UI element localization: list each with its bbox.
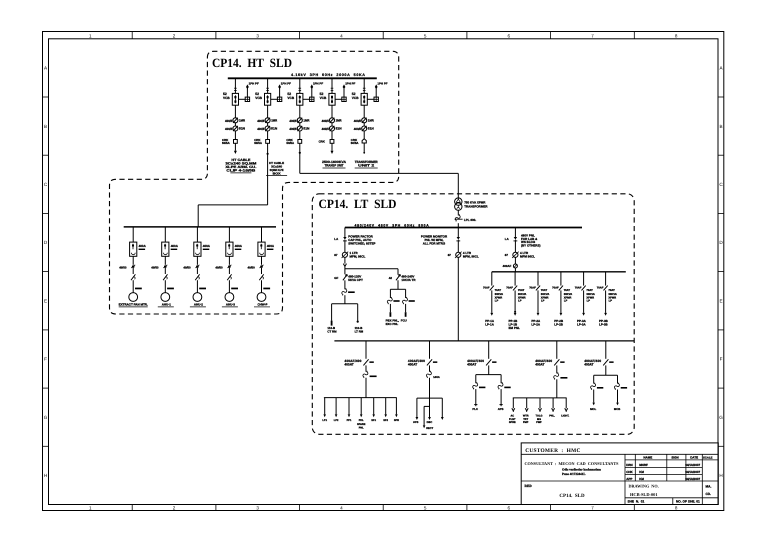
label HT feeder 1 destination text [225, 158, 256, 173]
svg-text:04/10/2007: 04/10/2007 [685, 470, 700, 474]
sheet outer border frame [43, 32, 724, 511]
LT sub distribution bus bar [492, 271, 626, 273]
svg-text:49/50: 49/50 [215, 265, 223, 269]
svg-text:LP2: LP2 [334, 419, 339, 422]
label lower feeder 4 branch 4 [549, 415, 555, 418]
label CT3B ratio [289, 127, 310, 131]
label HT feeder 1 fuse [222, 138, 231, 145]
svg-text:1PH PF: 1PH PF [377, 82, 387, 86]
svg-text:SPRE: SPRE [509, 421, 516, 424]
wire lower feeder 1 branch 4 [360, 398, 362, 415]
wire HT feeder 3 bus drop [299, 78, 301, 93]
label panel sub feeder 1 [485, 319, 495, 327]
svg-text:87: 87 [334, 253, 338, 257]
current transformer CT2A [265, 118, 270, 123]
label panel sub feeder 5 [577, 319, 587, 327]
svg-text:400AT: 400AT [408, 363, 417, 367]
terminal dot 110V right drop [357, 321, 359, 323]
svg-text:DBC: DBC [427, 421, 433, 424]
svg-text:MFM, 96CL: MFM, 96CL [350, 255, 366, 259]
svg-text:CONSULTANT : MECON CAD CON: CONSULTANT : MECON CAD CONSULTANTS [525, 461, 620, 466]
label lower feeder 4 branch 5 [561, 415, 569, 418]
label 52 VCB HT feeder 4 [320, 92, 327, 100]
wire lower feeder 5 branch 1 tail [593, 390, 595, 403]
svg-text:51N: 51N [271, 127, 278, 131]
PT arrow HT feeder 4 [343, 84, 346, 89]
PT arrow HT feeder 3 [310, 84, 313, 89]
wire HT feeder 2 bus drop [267, 78, 269, 93]
chevron arrow lower feeder 4 branch 2 [525, 408, 528, 411]
svg-text:6: 6 [508, 33, 511, 38]
wire HT feeder 4 below breaker [331, 105, 333, 118]
drawout chevrons HT feeder 5 [363, 88, 366, 90]
svg-text:LP-3A: LP-3A [577, 322, 587, 326]
svg-text:TRANSF UNIT: TRANSF UNIT [325, 164, 344, 168]
svg-text:42: 42 [389, 276, 393, 280]
wire HT feeder 2 below breaker [267, 105, 269, 118]
PT arrow HT feeder 1 [246, 84, 249, 89]
svg-text:3: 3 [256, 33, 259, 38]
svg-text:DRAWING NO.: DRAWING NO. [629, 484, 659, 489]
svg-text:5: 5 [424, 33, 427, 38]
label HT feeder 2 destination text [266, 161, 287, 176]
svg-text:49/50: 49/50 [119, 265, 127, 269]
svg-text:1MR: 1MR [271, 118, 278, 122]
svg-text:400/5: 400/5 [257, 127, 264, 131]
contact slash motor feeder 1 [131, 274, 135, 280]
dashed enclosure outline HT SLD panel + motor feeder panel (compound) [110, 51, 399, 314]
wire incomer down to lower bus [457, 257, 459, 341]
fuse squiggle lower feeder 3 branch 2 [498, 382, 503, 389]
svg-text:2: 2 [173, 33, 176, 38]
wire LT sub feeder 4 drop [560, 272, 562, 286]
svg-text:400/5: 400/5 [289, 119, 296, 123]
svg-text:F: F [44, 357, 47, 362]
svg-text:400/5: 400/5 [354, 127, 361, 131]
wire motor feeder 2 to contact [164, 268, 166, 274]
svg-text:E: E [719, 299, 722, 304]
wire HT feeder 1 below breaker [234, 105, 236, 118]
svg-text:MFM, 96CL: MFM, 96CL [463, 255, 479, 259]
svg-text:LP: LP [587, 300, 591, 303]
svg-text:SCALE: SCALE [703, 456, 713, 460]
label xfmr sub feeder 2 [518, 293, 527, 303]
wire HT feeder 1 tail [234, 143, 236, 151]
wire HT feeder 5 PT stub [375, 88, 377, 98]
fuse squiggle feeder A [342, 288, 347, 295]
overload relay motor feeder 2 [163, 265, 167, 268]
motor M1 circle [129, 293, 138, 302]
label xfmr sub feeder 1 [495, 293, 504, 303]
svg-text:E: E [44, 299, 47, 304]
svg-text:LP-3B: LP-3B [599, 322, 609, 326]
svg-text:4: 4 [340, 33, 343, 38]
label AF/AT lower feeder 3 [467, 359, 484, 367]
terminal bar feeder B2 [405, 312, 407, 317]
arrow lower feeder 2 branch 3 [441, 417, 444, 420]
wire lower feeder 5 branch 1 [593, 375, 595, 383]
svg-text:140A: 140A [433, 375, 440, 379]
svg-text:PLC: PLC [472, 407, 478, 411]
svg-text:CP14. LT SLD: CP14. LT SLD [319, 197, 397, 211]
wire LT sub feeder 1 drop [491, 272, 493, 286]
arrow lower feeder 1 branch 4 [360, 414, 363, 417]
svg-text:EF1: EF1 [371, 419, 376, 422]
label CT5A ratio [354, 118, 375, 122]
label CT1B ratio [225, 127, 246, 131]
label xfmr sub feeder 3 [541, 293, 550, 303]
border column tick marks top [132, 32, 634, 39]
label approvals row CHK [626, 470, 700, 474]
contact slash motor feeder 4 [227, 274, 231, 280]
breaker slash feeder B [396, 274, 401, 280]
motor M4 circle [225, 293, 234, 302]
PT fuse HT feeder 5 (pentagon) [362, 139, 366, 143]
terminal bar feeder B1 [390, 312, 392, 317]
breaker slash sub feeder 6 [604, 286, 608, 291]
wire lower feeder 3 to split [488, 365, 490, 374]
wire HT feeder 1 to fuse [234, 131, 236, 140]
svg-text:70AF: 70AF [529, 286, 536, 289]
chevron arrow lower feeder 4 branch 5 [565, 408, 568, 411]
svg-text:51N: 51N [239, 127, 246, 131]
wire motor feeder 2 below module [164, 256, 166, 265]
svg-text:TRANSFORMER: TRANSFORMER [464, 205, 488, 209]
label motor feeder 5 rating [267, 244, 275, 250]
svg-text:DRN: DRN [626, 463, 633, 467]
label AF/AT lower feeder 5 [584, 359, 601, 367]
test block TB3 (crossed box) [310, 97, 314, 101]
svg-text:400/5: 400/5 [257, 119, 264, 123]
fuse squiggle lower feeder 2 [426, 371, 431, 378]
svg-text:MA.: MA. [706, 484, 712, 488]
label CT2A ratio [257, 118, 278, 122]
wire motor feeder 4 to contact [228, 268, 230, 274]
label pole lower feeder 4 [560, 361, 564, 363]
label 110-B CT RM [327, 326, 337, 333]
wire sub feeder 3 tail [537, 290, 539, 313]
test block TB5 (crossed box) [374, 97, 378, 101]
svg-text:400AF: 400AF [503, 264, 512, 268]
dashed enclosure outline CP14 LT SLD panel [312, 194, 634, 434]
PT arrow HT feeder 2 [278, 84, 281, 89]
svg-text:MNRF: MNRF [639, 463, 648, 467]
current transformer CT3A [297, 118, 302, 123]
wire LT sub feeder 3 drop [537, 272, 539, 286]
svg-text:10KVA TR: 10KVA TR [401, 278, 416, 282]
vertical divider bottom row [672, 498, 674, 505]
svg-text:400/5: 400/5 [322, 119, 329, 123]
svg-text:1: 1 [89, 506, 92, 511]
svg-text:VCB: VCB [352, 96, 359, 100]
wire lower feeder 3 branch 2 tail [500, 389, 502, 405]
wire lower feeder 1 branch 7 [395, 398, 397, 415]
breaker slash sub feeder 1 [490, 286, 494, 291]
svg-text:SHE N. 01: SHE N. 01 [628, 500, 645, 504]
label motor M3 name [190, 303, 206, 307]
svg-text:PP1: PP1 [347, 419, 352, 422]
label AF/AT lower feeder 2 [408, 359, 425, 367]
svg-text:4: 4 [340, 506, 343, 511]
current transformer CT1A [233, 118, 238, 123]
fuse squiggle lower feeder 5 branch 1 [591, 383, 596, 390]
breaker slash lower feeder 1 [363, 359, 368, 365]
meter 4LTR feeder C [512, 252, 519, 258]
drawout chevrons HT feeder 4 [331, 88, 334, 90]
wire feeder C below meter [514, 257, 516, 264]
label feeder C description [521, 233, 540, 247]
arrow lower feeder 2 branch 1 [416, 417, 419, 420]
svg-text:F: F [720, 357, 723, 362]
fuse squiggle lower feeder 5 branch 2 [614, 383, 619, 390]
contact slash motor feeder 3 [195, 274, 199, 280]
wire HT feeder 3 between CTs [299, 123, 301, 127]
wire 110V panel right drop [357, 304, 359, 321]
label feeder B1 [386, 318, 400, 325]
svg-text:LT RM: LT RM [355, 330, 364, 334]
wire motor feeder 1 to contact [132, 268, 134, 274]
border row letter labels left [44, 66, 48, 479]
wire motor feeder 3 to contact [196, 268, 198, 274]
svg-text:LP: LP [564, 300, 568, 303]
surge arrester LA1 feeder A [343, 237, 347, 241]
label 52 VCB HT feeder 2 [255, 92, 262, 100]
contact slash motor feeder 2 [163, 274, 167, 280]
svg-text:49/50: 49/50 [183, 265, 191, 269]
svg-text:49/50: 49/50 [248, 265, 256, 269]
wire lower feeder 2 sub branch jog [424, 406, 429, 425]
fuse squiggle feeder B1 [387, 297, 392, 304]
svg-text:UPS: UPS [413, 421, 419, 424]
svg-text:400/5: 400/5 [354, 119, 361, 123]
wire motor feeder 1 drop [132, 227, 134, 242]
breaker slash sub feeder 5 [582, 286, 586, 291]
chevron arrow lower feeder 4 branch 4 [552, 408, 555, 411]
wire LT sub feeder 2 drop [514, 272, 516, 286]
wire LT sub feeder 6 drop [605, 272, 607, 286]
svg-text:H: H [719, 473, 722, 478]
wire lower feeder 1 to fuse [365, 365, 367, 371]
current transformer CT5A [362, 118, 367, 123]
label lower feeder 2 branches [413, 421, 432, 424]
label fuse feeder B1 [393, 300, 399, 302]
arrow sub feeder 6 [604, 313, 607, 316]
label fuse feeder A [348, 291, 355, 293]
svg-text:1PH PF: 1PH PF [281, 82, 291, 86]
wire HT feeder 2 PT stub [279, 88, 281, 98]
svg-text:5: 5 [424, 506, 427, 511]
label 200A lower feeder 4 [560, 377, 567, 379]
test block TB4 (crossed box) [342, 97, 346, 101]
contact slash motor feeder 5 [259, 274, 263, 280]
current transformer CT3B [297, 126, 302, 131]
svg-text:B: B [719, 124, 722, 129]
wire feeder C to sub bus [514, 268, 516, 272]
arrow sub feeder 2 [514, 313, 517, 316]
label AF/AT lower feeder 4 [535, 359, 552, 367]
svg-text:5KVA CPT: 5KVA CPT [348, 278, 363, 282]
svg-text:70AT: 70AT [564, 289, 571, 292]
wire LT feeder B drop [397, 269, 399, 275]
label feeder B description [401, 274, 416, 282]
svg-text:4.16kV 3PH 60Hz 2000A 50KA: 4.16kV 3PH 60Hz 2000A 50KA [291, 73, 366, 77]
svg-text:EXTRACT FAN MTR.: EXTRACT FAN MTR. [119, 303, 148, 307]
terminal bar 110V left drop [331, 321, 333, 326]
contactor-breaker module motor feeder 2 [162, 242, 169, 256]
svg-text:400A: 400A [267, 244, 275, 248]
fuse HT feeder 1 [234, 140, 238, 144]
wire feeder A to fuse [344, 280, 346, 289]
label approvals row DRN [626, 463, 700, 467]
wire feeder A to 110V panel header [344, 295, 346, 304]
svg-text:49/50: 49/50 [151, 265, 159, 269]
chevron arrow lower feeder 4 branch 3 [539, 408, 542, 411]
wire feeder B1 tail [389, 304, 391, 312]
label 52 VCB HT feeder 3 [287, 92, 294, 100]
wire sub feeder 1 tail [491, 290, 493, 313]
LT incomer switch-fuse [455, 214, 463, 221]
svg-text:PNL: PNL [359, 427, 364, 430]
wire motor feeder 3 below module [196, 256, 198, 265]
svg-text:400A: 400A [235, 244, 243, 248]
wire HT feeder 1 bus drop [234, 78, 236, 93]
label CT5B ratio [354, 127, 375, 131]
svg-text:DATE: DATE [690, 456, 698, 460]
arrow sub feeder 3 [537, 313, 540, 316]
arrow HT feeder 1 outgoing [234, 151, 237, 154]
svg-text:CHW-P: CHW-P [257, 303, 267, 307]
test block TB1 (crossed box) [245, 97, 249, 101]
svg-text:51N: 51N [303, 127, 310, 131]
wire HT feeder 4 between CTs [331, 123, 333, 127]
label lower feeder 4 branch 3 [536, 415, 543, 425]
wire sub feeder 2 tail [514, 290, 516, 313]
svg-text:AHU-1: AHU-1 [162, 303, 171, 307]
wire HT feeder 3 CT branch [303, 98, 310, 100]
svg-text:400A: 400A [171, 244, 179, 248]
svg-text:70AT: 70AT [495, 289, 502, 292]
label CT2B ratio [257, 127, 278, 131]
label motor feeder 2 rating [171, 244, 179, 250]
surge arrester LA2 incomer [456, 237, 460, 241]
wire HT feeder 2 down to motor MCC [267, 143, 269, 205]
label NAME SIGN DATE SCALE headers [643, 456, 712, 460]
lower feeder 2 header bar [417, 397, 442, 399]
svg-text:87: 87 [448, 253, 452, 257]
svg-text:50/5A: 50/5A [222, 141, 231, 145]
svg-text:CRK: CRK [319, 139, 326, 143]
wire motor MCC incomer drop [197, 205, 199, 227]
label kW motor feeder 3 [199, 288, 206, 290]
wire HT feeder 4 tail [331, 143, 333, 151]
fuse squiggle lower feeder 4 [554, 373, 559, 380]
current transformer CT5B [362, 126, 367, 131]
wire incomer to meter [457, 241, 459, 252]
arrow lower feeder 1 branch 1 [323, 414, 326, 417]
wire lower feeder 2 branch 1 [416, 398, 418, 417]
meter 4LTR incomer [455, 252, 462, 258]
svg-text:70AF: 70AF [506, 286, 513, 289]
arrow lower feeder 2 sub branch [423, 425, 426, 428]
LT main bus bar [345, 227, 582, 229]
label fuse lower feeder 5 branch 2 [621, 387, 627, 389]
svg-text:400/5: 400/5 [322, 127, 329, 131]
wire feeder A below meter [344, 257, 346, 263]
wire transformer secondary [457, 210, 459, 215]
fuse squiggle lower feeder 1 [363, 371, 368, 378]
arrow sub feeder 5 [582, 313, 585, 316]
label lower feeder 4 branch 2 [523, 415, 529, 425]
LT lower distribution bus bar [334, 340, 634, 342]
svg-text:400A: 400A [203, 244, 211, 248]
label approvals row APP [626, 477, 700, 481]
breaker slash sub feeder 2 [513, 286, 517, 291]
label motor M1 name [119, 303, 148, 307]
wire motor feeder 5 below module [261, 256, 263, 265]
wire lower feeder 2 to fuse [429, 365, 431, 371]
wire LT incomer to bus [457, 223, 459, 227]
wire lower feeder 5 branch 2 [617, 375, 619, 383]
wire feeder A to meter [344, 241, 346, 252]
arrow lower feeder 1 branch 6 [384, 414, 387, 417]
svg-text:NO. OF SHE. 01: NO. OF SHE. 01 [676, 500, 700, 504]
svg-text:G: G [44, 415, 48, 420]
motor M3 circle [193, 293, 202, 302]
wire 110V panel left drop [331, 304, 333, 321]
label xfmr sub feeder 4 [564, 293, 573, 303]
label 110-B LT RM [355, 326, 364, 333]
svg-text:LPL 600.: LPL 600. [464, 218, 476, 222]
drawout chevrons HT feeder 2 [266, 88, 269, 90]
wire lower feeder 5 branch 2 tail [617, 390, 619, 403]
svg-text:CD.: CD. [706, 492, 712, 496]
breaker slash sub feeder 3 [536, 286, 540, 291]
wire lower feeder 1 branch 2 [335, 398, 337, 415]
arrow lower feeder 1 branch 7 [395, 414, 398, 417]
label kW motor feeder 4 [231, 288, 238, 290]
title block approvals table lines [625, 454, 718, 504]
title block bottom row line [625, 497, 718, 499]
motor M5 circle [257, 293, 266, 302]
label motor M4 name [222, 303, 238, 307]
wire HT feeder 1 between CTs [234, 123, 236, 127]
svg-text:LP: LP [518, 300, 522, 303]
title block row line under customer [521, 453, 718, 455]
wire lower feeder 4 to header [556, 379, 558, 398]
wire sub feeder 4 tail [560, 290, 562, 313]
svg-text:70AF: 70AF [575, 286, 582, 289]
wire lower feeder 2 branch 3 [441, 398, 443, 417]
wire motor feeder 2 drop [164, 227, 166, 242]
wire lower feeder 3 branch 1 tail [475, 389, 477, 405]
label kW motor feeder 2 [167, 288, 174, 290]
wire HT feeder 5 between CTs [363, 123, 365, 127]
label panel sub feeder 2 [509, 319, 521, 330]
svg-text:400A: 400A [139, 244, 147, 248]
svg-text:FCU: FCU [401, 318, 407, 322]
wire HT feeder 2 CT branch [271, 98, 278, 100]
svg-text:BOX: BOX [273, 171, 281, 175]
wire feeder B2 drop [405, 289, 407, 298]
svg-text:400AT: 400AT [584, 363, 593, 367]
breaker slash sub feeder 4 [559, 286, 563, 291]
surge arrester LA3 feeder C [514, 237, 518, 241]
svg-text:70AT: 70AT [541, 289, 548, 292]
wire feeder A junction [344, 266, 346, 274]
svg-text:VCB: VCB [255, 96, 262, 100]
label MA CD revision cell [706, 484, 712, 496]
breaker slash lower feeder 5 [603, 359, 608, 365]
